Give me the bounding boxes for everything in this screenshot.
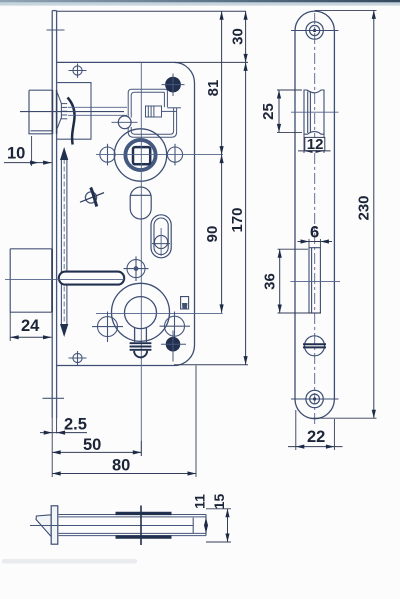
svg-text:22: 22 — [307, 428, 325, 446]
pin rect — [181, 297, 189, 309]
6 dim — [309, 239, 320, 248]
deadbolt centerline — [5, 279, 124, 281]
body lines — [30, 515, 206, 536]
svg-text:24: 24 — [21, 317, 40, 335]
svg-text:15: 15 — [211, 494, 227, 510]
36 dim — [278, 248, 309, 250]
cylinder h centerline — [96, 312, 223, 314]
faceplate outline — [295, 11, 334, 399]
dark case bars — [116, 512, 172, 515]
svg-text:90: 90 — [204, 226, 221, 243]
svg-text:30: 30 — [230, 28, 247, 45]
svg-text:170: 170 — [229, 207, 246, 232]
dark post circle — [166, 77, 181, 92]
faceplate bottom screw tick — [43, 397, 65, 399]
dark screw circle — [166, 337, 180, 351]
svg-text:25: 25 — [260, 103, 277, 120]
latch tail trapezoid — [57, 93, 61, 129]
25 dim — [277, 89, 302, 91]
230 dim — [315, 9, 377, 11]
latch centerline tick — [291, 111, 339, 113]
30/170 dim line — [245, 11, 247, 364]
slotted obround — [151, 215, 171, 258]
follower h centerline — [96, 154, 223, 156]
latch head — [29, 90, 52, 134]
faceplate top screw tick — [47, 29, 65, 31]
latch wedge — [36, 515, 51, 537]
24 dim — [9, 312, 11, 341]
12 dim boxed — [304, 134, 324, 153]
euro cylinder profile — [125, 297, 157, 329]
svg-text:230: 230 — [356, 195, 373, 220]
vertical guide rod with arrows — [61, 158, 67, 326]
latch guide box — [57, 83, 91, 140]
svg-text:6: 6 — [310, 224, 319, 242]
11 dim — [205, 517, 207, 533]
middle screw slot — [303, 336, 326, 356]
bolt stump capsule — [59, 272, 124, 285]
latch cutout — [304, 90, 324, 134]
top screw — [291, 22, 339, 39]
deadbolt head — [10, 249, 51, 312]
svg-text:11: 11 — [192, 494, 208, 509]
svg-text:50: 50 — [83, 436, 101, 454]
small cam — [112, 116, 138, 129]
faceplate bar — [51, 506, 58, 544]
cylinder side screws — [92, 312, 190, 343]
case bottom extension to dim — [174, 364, 248, 366]
svg-text:10: 10 — [7, 145, 25, 163]
center dashed line — [314, 13, 316, 425]
faceplate side strip — [52, 11, 56, 418]
hatched box — [146, 106, 162, 117]
dark spring curve — [68, 98, 75, 145]
80 dim — [195, 366, 197, 478]
15 dim — [206, 509, 231, 542]
deadbolt centerline tick — [291, 281, 341, 283]
lock case outline — [57, 62, 195, 365]
10 dim — [31, 136, 33, 166]
main v centerline — [140, 62, 142, 456]
svg-text:2.5: 2.5 — [64, 416, 87, 434]
euro cylinder rosette — [112, 283, 170, 341]
svg-text:81: 81 — [205, 80, 222, 97]
bottom screw — [291, 390, 339, 407]
svg-text:80: 80 — [112, 457, 130, 475]
small cross circle — [124, 256, 149, 281]
mechanism lines — [68, 106, 127, 108]
bottom screw cross — [69, 351, 87, 365]
svg-text:36: 36 — [262, 273, 279, 290]
follower hub — [114, 129, 166, 181]
faint scan smudge bottom-left — [2, 559, 137, 564]
case top extension to dim — [174, 61, 248, 63]
holdback cam — [85, 192, 96, 203]
top extension line — [57, 10, 246, 12]
latch centerline — [20, 111, 124, 113]
50 dim — [140, 441, 142, 456]
deadbolt cutout — [309, 248, 320, 313]
C-wire assembly — [128, 89, 181, 137]
follower side screws — [100, 144, 183, 166]
spring serrations — [61, 104, 67, 119]
svg-text:12: 12 — [307, 136, 324, 153]
vertical center mark — [140, 506, 142, 546]
right end box — [193, 515, 206, 536]
22 dim — [296, 410, 335, 450]
81/90 dim line — [221, 11, 223, 313]
2.5 dim — [51, 418, 53, 477]
tumbler capsule — [130, 187, 151, 219]
top screw cross — [69, 64, 87, 78]
